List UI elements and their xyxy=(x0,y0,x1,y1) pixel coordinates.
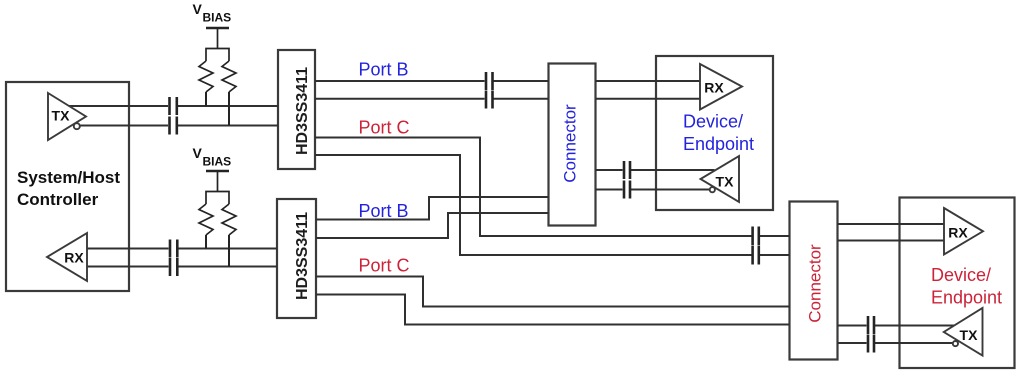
svg-text:Port B: Port B xyxy=(359,201,409,221)
svg-text:BIAS: BIAS xyxy=(203,155,232,169)
svg-text:Port B: Port B xyxy=(359,60,409,80)
svg-text:TX: TX xyxy=(716,174,735,190)
svg-text:System/Host: System/Host xyxy=(17,168,120,187)
svg-text:HD3SS3411: HD3SS3411 xyxy=(294,212,311,300)
svg-text:Port C: Port C xyxy=(359,118,410,138)
svg-text:Controller: Controller xyxy=(17,190,99,209)
svg-text:RX: RX xyxy=(64,250,84,266)
svg-text:V: V xyxy=(193,145,203,161)
svg-text:BIAS: BIAS xyxy=(203,11,232,25)
svg-text:Endpoint: Endpoint xyxy=(683,134,754,154)
svg-text:Connector: Connector xyxy=(806,244,825,323)
svg-text:V: V xyxy=(193,1,203,17)
svg-text:TX: TX xyxy=(960,327,979,343)
svg-text:Device/: Device/ xyxy=(931,265,991,285)
svg-text:Port C: Port C xyxy=(359,256,410,276)
svg-text:Device/: Device/ xyxy=(683,112,743,132)
svg-text:Connector: Connector xyxy=(561,104,580,183)
svg-text:RX: RX xyxy=(704,80,724,96)
svg-text:Endpoint: Endpoint xyxy=(931,288,1002,308)
svg-text:HD3SS3411: HD3SS3411 xyxy=(294,67,311,155)
svg-text:TX: TX xyxy=(52,108,71,124)
svg-text:RX: RX xyxy=(948,225,968,241)
